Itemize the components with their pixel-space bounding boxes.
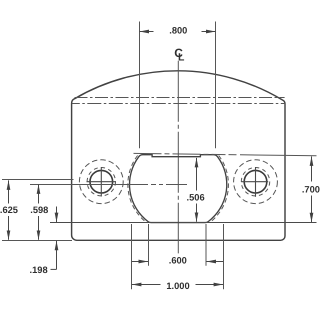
- svg-text:L: L: [178, 51, 185, 63]
- svg-text:.506: .506: [187, 192, 205, 202]
- hidden centerline upper B: [72, 103, 285, 105]
- dimension .198: [56, 207, 58, 223]
- extension line 1.000 right: [223, 224, 225, 289]
- dimension .625: [8, 180, 10, 190]
- svg-text:.198: .198: [30, 265, 48, 275]
- bottom extension line left: [2, 240, 72, 242]
- extension line 1.000 left: [131, 224, 133, 289]
- dimension .600: [132, 261, 149, 263]
- extension line .598 (dash-dot): [30, 184, 189, 186]
- right hole hidden circle r22: [234, 160, 278, 204]
- part outline: [72, 71, 285, 240]
- hidden arc right of opening: [210, 156, 228, 223]
- svg-text:.700: .700: [302, 184, 320, 194]
- right hole hidden circle r14: [241, 168, 269, 196]
- extension line .600 left: [148, 224, 150, 266]
- svg-text:1.000: 1.000: [166, 281, 189, 291]
- hidden arc left of opening: [128, 156, 146, 223]
- left hole hidden circle r14: [87, 168, 115, 196]
- dimension .800: [140, 31, 154, 33]
- left hole crosshair: [87, 181, 117, 183]
- extension line .600 right: [205, 224, 207, 266]
- svg-text:.600: .600: [169, 256, 187, 266]
- vertical centerline: [177, 61, 179, 254]
- dimension .506: [196, 158, 198, 167]
- groove line (bottom of opening, full width): [50, 222, 317, 224]
- extension line .625: [2, 179, 74, 181]
- dimension .700: [311, 156, 313, 166]
- dimension 1.000: [132, 284, 161, 286]
- right hole crosshair: [241, 181, 268, 183]
- hidden centerline upper A: [75, 97, 285, 99]
- svg-text:.598: .598: [30, 205, 48, 215]
- horizontal centerline mid (dash-dot to .700): [134, 153, 317, 155]
- right hole H2 circle: [244, 170, 267, 193]
- svg-text:.625: .625: [0, 205, 18, 215]
- left hole H1 circle: [90, 170, 113, 193]
- dimension .598: [38, 184, 40, 193]
- extension line .800 left: [139, 22, 141, 149]
- extension line .800 right: [215, 22, 217, 149]
- central opening outline: [130, 155, 227, 223]
- left hole hidden circle r22: [79, 160, 123, 204]
- svg-text:.800: .800: [169, 26, 187, 36]
